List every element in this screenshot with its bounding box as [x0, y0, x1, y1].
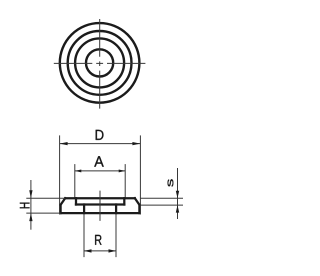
s arrow top	[176, 191, 179, 199]
circle chamfer edge	[68, 31, 132, 95]
label H	[20, 203, 30, 209]
D extension line left	[59, 135, 61, 214]
A dimension line	[75, 170, 125, 172]
A arrow left	[75, 169, 82, 172]
D arrow right	[132, 142, 140, 145]
circle outer diameter D	[60, 23, 140, 103]
s extension line bottom	[141, 204, 184, 206]
section chamfer left	[61, 198, 66, 205]
circle hole diameter R	[86, 49, 113, 76]
top view	[60, 23, 140, 103]
D arrow left	[60, 142, 68, 145]
label R	[95, 235, 101, 245]
section outer edge left	[59, 205, 61, 213]
section hole wall right	[115, 205, 117, 214]
centerline horizontal	[54, 62, 146, 64]
D dimension line	[60, 143, 141, 145]
R dimension line	[84, 250, 116, 252]
section chamfer right	[135, 198, 140, 205]
A extension line right	[124, 164, 126, 198]
s dimension line	[177, 168, 179, 219]
H extension line bottom	[26, 212, 60, 214]
dimension D	[60, 130, 141, 215]
label A	[94, 156, 103, 166]
R extension line right	[115, 214, 117, 257]
dimension H	[20, 180, 65, 230]
section bottom surface	[61, 212, 140, 214]
section centerline	[99, 191, 101, 221]
circle recess diameter A	[75, 38, 124, 87]
label D	[96, 130, 104, 140]
H arrow top	[29, 190, 32, 198]
s arrow bottom	[176, 205, 179, 213]
D extension line right	[139, 135, 141, 214]
R arrow left	[84, 249, 92, 252]
dimension s	[141, 168, 184, 219]
dimension A	[75, 156, 125, 198]
centerline vertical	[99, 19, 101, 109]
H extension line top	[26, 197, 65, 199]
label s	[168, 179, 174, 186]
H arrow bottom	[29, 213, 32, 221]
section inner shelf line	[76, 203, 124, 205]
section top surface	[65, 197, 135, 199]
section view	[61, 198, 140, 213]
R extension line left	[83, 214, 85, 257]
section step wall left	[75, 198, 77, 204]
section step wall right	[123, 198, 125, 204]
R arrow right	[109, 249, 117, 252]
s extension line top	[141, 197, 184, 199]
A extension line left	[74, 164, 76, 198]
section hole wall left	[83, 205, 85, 214]
A arrow right	[119, 169, 126, 172]
H dimension line	[30, 180, 32, 230]
dimension R	[84, 214, 116, 257]
section outer edge right	[138, 205, 140, 213]
